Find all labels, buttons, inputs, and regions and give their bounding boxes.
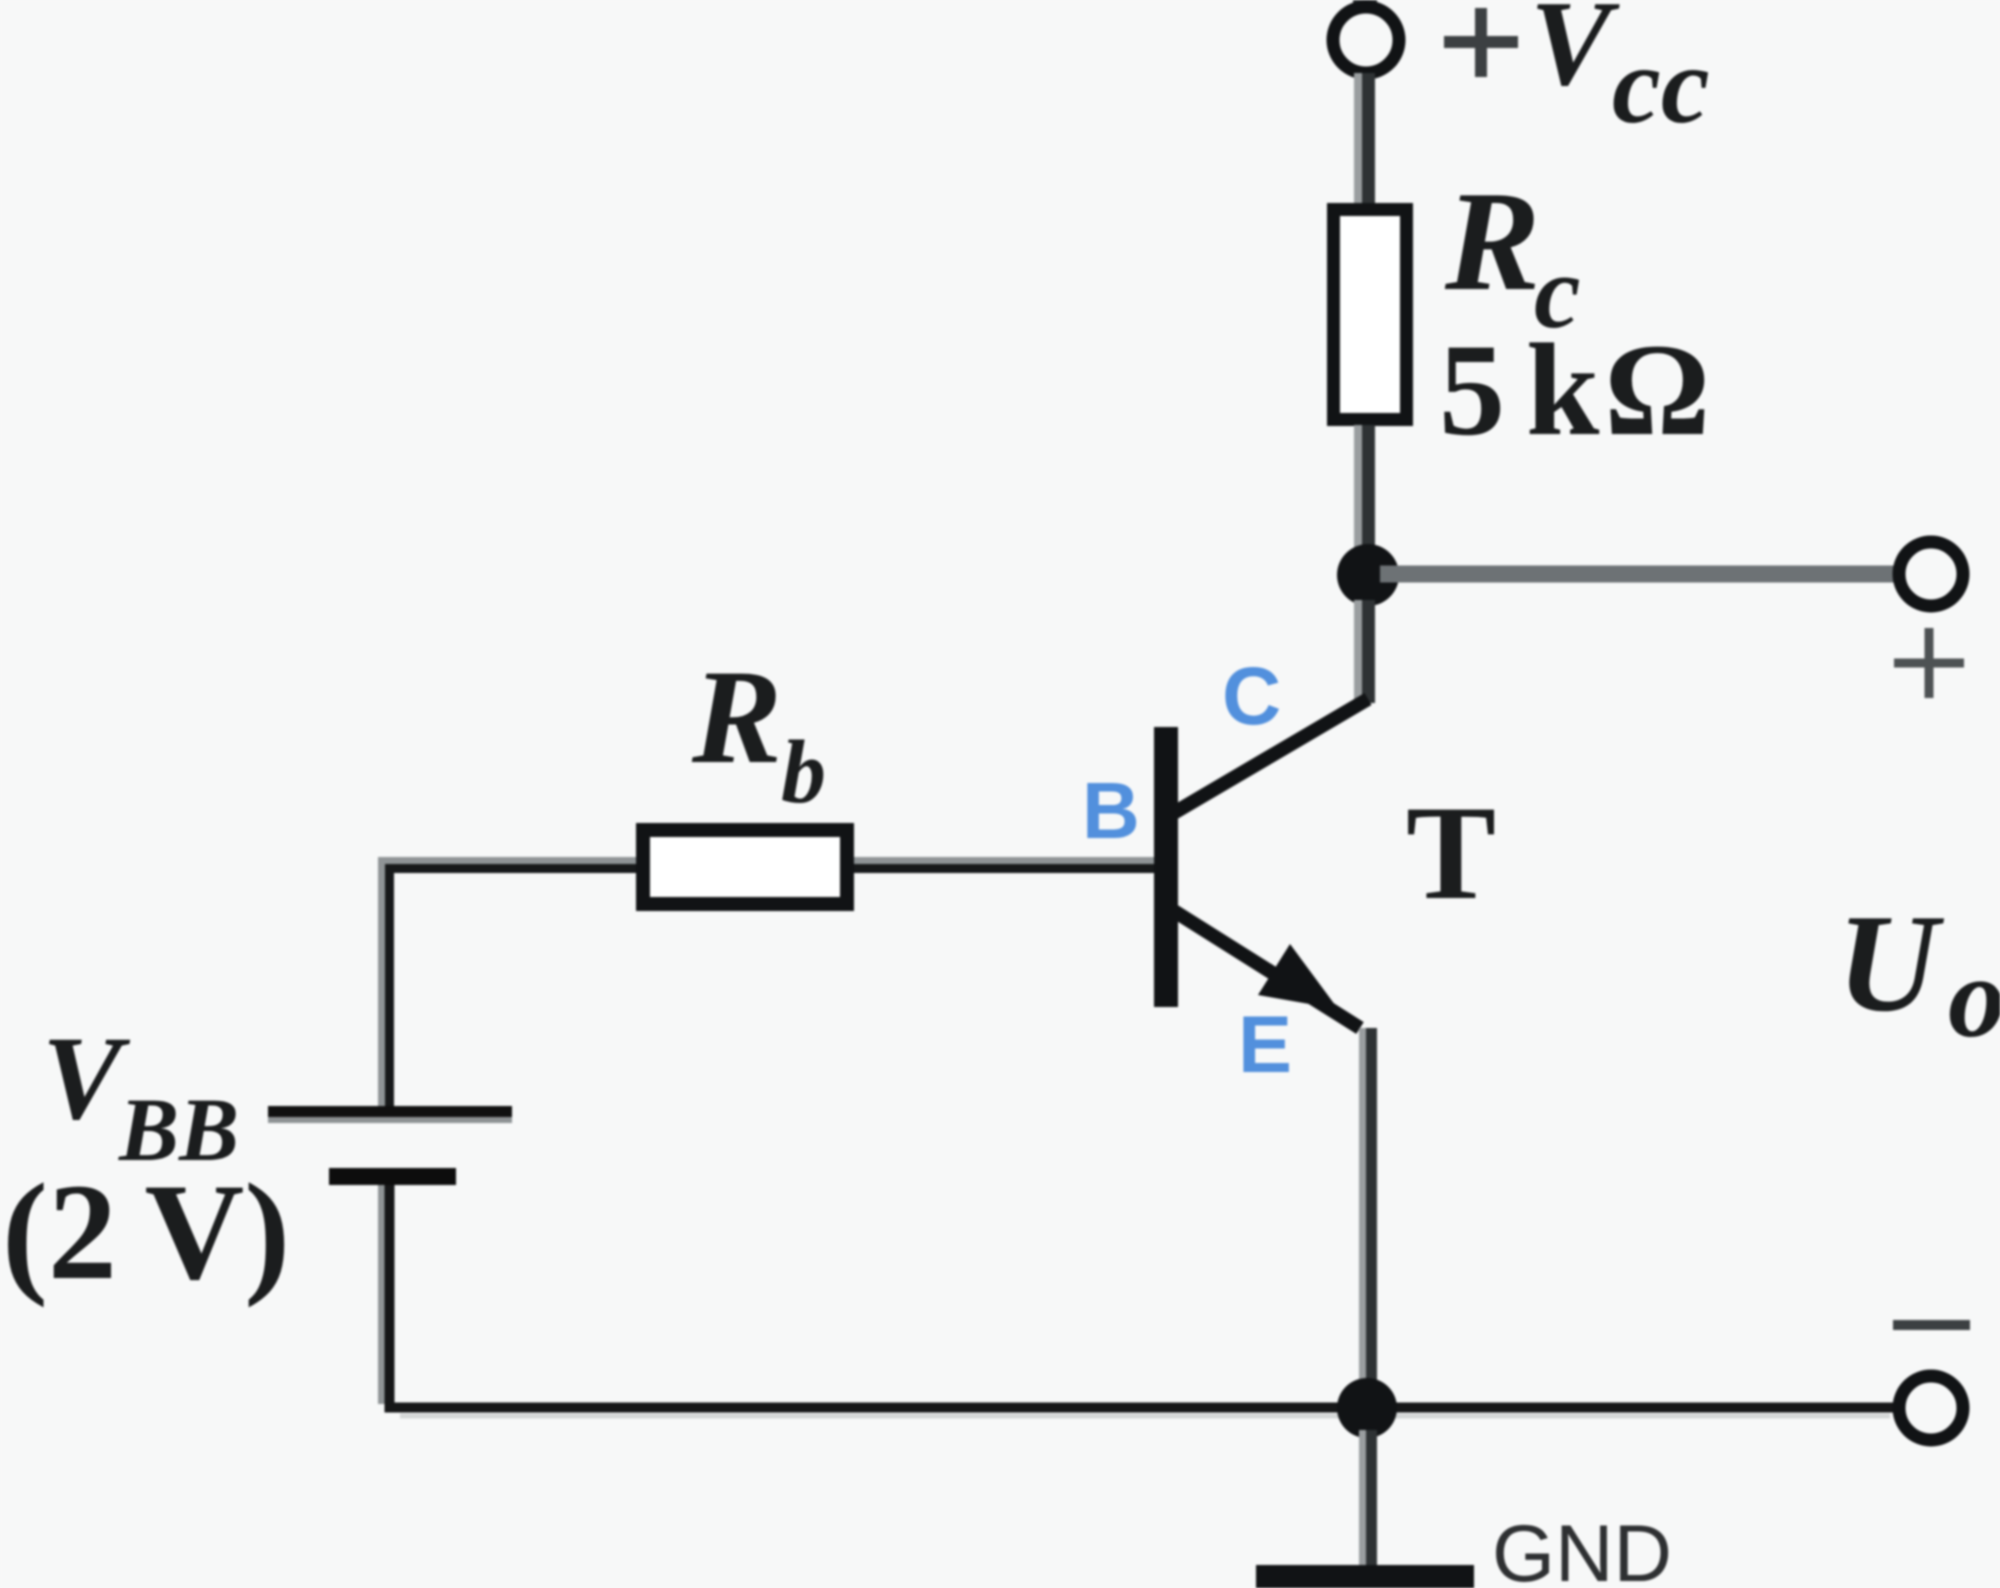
wire base: bar to Rb to left corner, down to battery <box>382 861 1155 1107</box>
wire Rc to node A <box>1354 425 1375 550</box>
battery VBB positive plate (long) <box>268 1106 512 1123</box>
wire emitter down to node B <box>1359 1028 1377 1408</box>
wire node A down to collector bend <box>1354 600 1375 703</box>
node A (collector/output junction) <box>1337 544 1399 606</box>
svg-text:R: R <box>1444 162 1540 320</box>
resistor Rc <box>1334 210 1407 420</box>
battery VBB negative plate (short thick) <box>329 1168 456 1185</box>
svg-text:T: T <box>1406 779 1496 928</box>
label Uo <box>1837 886 2000 1061</box>
label + (output polarity) <box>1894 628 1964 698</box>
node B (emitter/ground junction) <box>1337 1378 1397 1438</box>
svg-text:B: B <box>1082 766 1140 855</box>
resistor Rb <box>643 830 847 904</box>
transistor T collector lead <box>1172 699 1368 814</box>
wire battery to bottom rail <box>382 1185 1895 1408</box>
svg-text:GND: GND <box>1492 1509 1672 1588</box>
output + terminal <box>1899 542 1963 606</box>
label Rb <box>691 643 826 822</box>
svg-text:V: V <box>42 1011 131 1144</box>
bottom rail light underline <box>400 1414 1890 1419</box>
svg-text:C: C <box>1222 651 1281 742</box>
wire stub above +Vcc terminal <box>1353 0 1377 7</box>
svg-text:o: o <box>1948 934 2000 1061</box>
transistor T emitter arrow <box>1258 944 1338 1009</box>
label VBB <box>42 1011 239 1180</box>
svg-text:E: E <box>1238 1000 1292 1090</box>
label - (output polarity) <box>1893 1320 1970 1330</box>
+Vcc terminal <box>1333 7 1399 73</box>
wire node B to GND <box>1359 1430 1377 1570</box>
svg-text:U: U <box>1837 886 1945 1041</box>
svg-text:cc: cc <box>1612 24 1710 146</box>
wire Vcc terminal to Rc <box>1354 73 1375 205</box>
wire node A to output + terminal <box>1380 566 1896 583</box>
svg-text:R: R <box>691 643 782 792</box>
svg-text:V: V <box>1530 0 1620 111</box>
transistor T emitter lead <box>1174 911 1360 1028</box>
ground bar <box>1256 1565 1474 1588</box>
svg-text:(2 V): (2 V) <box>2 1155 290 1308</box>
label +Vcc <box>1444 0 1710 146</box>
output - terminal <box>1899 1376 1963 1440</box>
transistor T base bar <box>1154 727 1178 1007</box>
label Rc <box>1444 162 1581 350</box>
svg-text:5 kΩ: 5 kΩ <box>1439 316 1715 463</box>
svg-text:b: b <box>781 723 826 822</box>
